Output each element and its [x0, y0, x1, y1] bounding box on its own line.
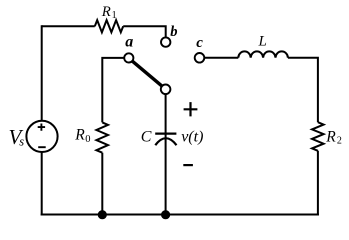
- node c circle: [195, 53, 205, 63]
- svg-text:1: 1: [112, 10, 117, 21]
- resistor R1 zigzag: [95, 20, 123, 32]
- wire top left segment: [42, 25, 95, 27]
- wire bottom rail: [41, 214, 319, 216]
- node b circle: [161, 37, 170, 46]
- voltage source Vs circle: [26, 121, 57, 152]
- wire R2 bottom to bottom-right corner: [317, 151, 319, 216]
- junction dot left: [98, 210, 107, 219]
- resistor R0 zigzag: [96, 122, 108, 152]
- svg-text:a: a: [125, 34, 133, 51]
- svg-text:c: c: [196, 35, 203, 51]
- svg-text:2: 2: [337, 136, 342, 147]
- voltage source plus sign: [38, 124, 45, 131]
- svg-text:s: s: [19, 135, 24, 149]
- svg-text:v(t): v(t): [181, 129, 203, 146]
- switch blade: [132, 61, 162, 87]
- wire node c to inductor: [204, 57, 238, 59]
- switch lower circle on capacitor branch: [161, 85, 171, 95]
- svg-text:C: C: [141, 128, 152, 145]
- svg-text:R: R: [325, 128, 336, 145]
- wire R1 to node b: [123, 26, 166, 37]
- label minus of v(t): [183, 164, 193, 166]
- svg-text:L: L: [258, 34, 267, 50]
- svg-text:b: b: [170, 24, 177, 40]
- switch node a circle: [124, 53, 133, 62]
- inductor L coil: [238, 51, 288, 57]
- wire R0 bottom: [101, 153, 103, 215]
- voltage source minus sign: [38, 146, 46, 148]
- svg-text:0: 0: [85, 134, 90, 145]
- wire capacitor branch vertical: [165, 94, 167, 214]
- wire left vertical to source: [41, 25, 43, 121]
- capacitor C top plate: [155, 133, 176, 135]
- wire node a to R0 branch: [102, 58, 124, 123]
- resistor R2 zigzag: [312, 122, 324, 151]
- wire source bottom to bottom-left corner: [41, 152, 43, 216]
- junction dot right: [161, 210, 170, 219]
- label plus of v(t): [184, 102, 198, 116]
- svg-text:R: R: [74, 127, 85, 144]
- capacitor C curved plate: [155, 138, 176, 145]
- svg-text:R: R: [101, 4, 111, 20]
- wire inductor to top-right corner down to R2: [288, 58, 318, 122]
